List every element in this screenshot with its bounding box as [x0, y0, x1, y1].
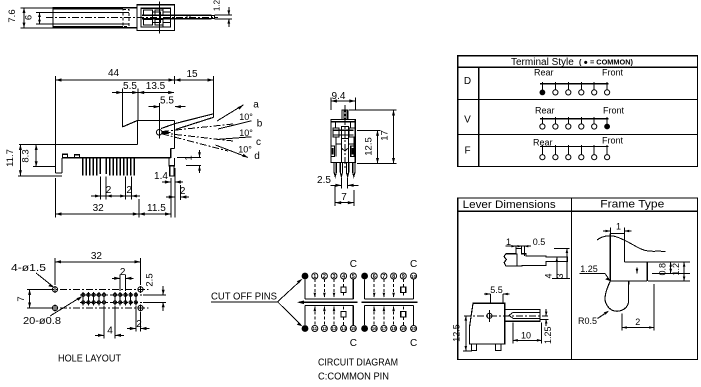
svg-text:10°: 10° [239, 112, 253, 122]
svg-text:20: 20 [411, 326, 416, 331]
svg-text:Front: Front [602, 68, 624, 78]
dim 2 2 [91, 177, 140, 200]
svg-text:17: 17 [380, 130, 391, 141]
svg-text:6: 6 [373, 274, 376, 280]
svg-text:5.5: 5.5 [160, 96, 174, 107]
svg-text:d: d [254, 151, 260, 162]
svg-text:C: C [350, 338, 357, 349]
side clips [331, 146, 354, 157]
dim 44 and 15 [56, 68, 214, 145]
svg-text:1: 1 [616, 222, 621, 232]
svg-text:V: V [464, 115, 471, 126]
svg-text:7: 7 [16, 296, 27, 301]
svg-text:7: 7 [382, 274, 385, 280]
bottom pins 16-20 [371, 326, 416, 332]
top pins 6-10 [371, 273, 416, 280]
center line [46, 17, 218, 19]
svg-text:F: F [464, 146, 470, 157]
body block [137, 5, 175, 31]
angle leaders [216, 105, 252, 158]
dim 32 and 11.5 [56, 178, 172, 218]
dim 5.5 pivot [149, 96, 186, 139]
svg-text:1.2: 1.2 [213, 0, 222, 11]
svg-text:13: 13 [332, 326, 337, 331]
small holes grid [82, 292, 138, 306]
arm top view [505, 309, 540, 321]
pins comb [82, 158, 135, 176]
svg-text:C: C [410, 338, 417, 349]
centerline arm [464, 315, 548, 317]
svg-text:7.6: 7.6 [7, 9, 18, 22]
pivot [156, 130, 170, 136]
svg-text:4-ø1.5: 4-ø1.5 [11, 262, 46, 274]
svg-text:2.5: 2.5 [317, 175, 331, 186]
frame profile [610, 233, 624, 235]
svg-text:a: a [253, 100, 259, 111]
svg-text:R0.5: R0.5 [578, 316, 597, 326]
cut pins filled [302, 273, 368, 332]
lever solid [161, 114, 214, 130]
top pins 1-5 [312, 273, 357, 280]
LOWERTABLE [452, 198, 698, 359]
svg-text:HOLE LAYOUT: HOLE LAYOUT [58, 353, 122, 365]
svg-text:11: 11 [312, 326, 317, 331]
svg-text:15: 15 [351, 326, 356, 331]
dim 9.4 [331, 91, 355, 110]
dim 32 holes [55, 251, 141, 285]
rails right half [365, 279, 414, 326]
hidden detail [123, 9, 129, 26]
dim 1.2 [213, 0, 233, 27]
dim 12.5 front [357, 130, 381, 163]
bottom pins 11-15 [312, 326, 357, 332]
pivot top view [487, 313, 492, 318]
body front [331, 119, 355, 162]
body inner [336, 137, 354, 163]
svg-text:1.4: 1.4 [154, 171, 168, 182]
svg-text:8.3: 8.3 [21, 149, 32, 162]
svg-text:2.5: 2.5 [145, 273, 156, 286]
dim 2 right holes [127, 306, 150, 332]
svg-text:3: 3 [333, 274, 336, 280]
pivot bar [333, 127, 356, 139]
TOPVIEW [7, 0, 232, 34]
row D [464, 68, 624, 96]
dim 7.6 [7, 8, 53, 28]
svg-text:b: b [257, 119, 263, 130]
dim 17 front [349, 110, 397, 164]
dim 5.5 and 13.5 [112, 81, 174, 127]
svg-text:c: c [256, 137, 261, 148]
svg-text:CUT OFF PINS: CUT OFF PINS [211, 291, 277, 303]
svg-text:10: 10 [411, 274, 416, 279]
svg-text:Rear: Rear [535, 106, 555, 116]
svg-text:19: 19 [401, 326, 406, 331]
SIDEVIEW [5, 68, 263, 218]
pins front [334, 163, 355, 177]
svg-text:15: 15 [186, 69, 198, 80]
crosshair vertical [159, 2, 161, 34]
svg-text:10°: 10° [238, 145, 252, 155]
dim 7 front [335, 186, 354, 206]
svg-text:7: 7 [341, 192, 347, 203]
svg-text:16: 16 [372, 326, 377, 331]
dim 4 [95, 306, 124, 339]
corner holes [52, 286, 143, 312]
svg-text:Front: Front [602, 136, 624, 146]
svg-text:6: 6 [24, 15, 35, 20]
table frame 2 [458, 198, 698, 359]
svg-text:1: 1 [313, 274, 316, 280]
right tab [169, 158, 175, 176]
svg-text:32: 32 [91, 251, 103, 262]
dim 1.4 [154, 171, 183, 186]
svg-text:5.5: 5.5 [490, 285, 503, 295]
lever rays [162, 124, 233, 151]
svg-text:4: 4 [107, 326, 113, 337]
center line front [344, 105, 346, 170]
dim 11.7 [5, 145, 62, 176]
svg-text:12.5: 12.5 [364, 137, 375, 156]
lever body top view [470, 303, 505, 344]
body outline [56, 145, 171, 174]
svg-text:12: 12 [322, 326, 327, 331]
svg-text:12.5: 12.5 [452, 324, 462, 342]
svg-text:8: 8 [392, 274, 395, 280]
svg-text:Lever Dimensions: Lever Dimensions [463, 199, 557, 211]
label 20-d0.8 [23, 296, 82, 327]
lever top view [452, 285, 554, 351]
svg-text:44: 44 [108, 68, 120, 79]
svg-text:1: 1 [506, 237, 511, 247]
table frame [458, 56, 698, 167]
svg-text:10°: 10° [239, 128, 253, 138]
svg-text:( ● = COMMON): ( ● = COMMON) [579, 58, 633, 67]
svg-text:D: D [464, 76, 471, 87]
svg-text:Rear: Rear [534, 68, 554, 78]
rails left half [305, 279, 353, 326]
dim 1 step [177, 150, 201, 173]
CIRCUIT [211, 259, 418, 383]
block and slant [122, 121, 174, 158]
lever side view [504, 237, 570, 279]
knob [342, 110, 348, 119]
svg-text:CIRCUIT DIAGRAM: CIRCUIT DIAGRAM [318, 357, 398, 369]
svg-text:C:COMMON PIN: C:COMMON PIN [318, 371, 389, 383]
angle labels [238, 100, 263, 163]
svg-text:2: 2 [323, 274, 326, 280]
svg-text:1: 1 [183, 155, 194, 160]
svg-text:0.5: 0.5 [533, 237, 546, 247]
row F [464, 136, 623, 160]
svg-text:1.25: 1.25 [580, 264, 598, 274]
svg-text:20-ø0.8: 20-ø0.8 [23, 315, 61, 327]
C labels [350, 259, 417, 349]
svg-text:11.5: 11.5 [147, 203, 166, 214]
svg-text:9: 9 [402, 274, 405, 280]
svg-text:13.5: 13.5 [146, 81, 166, 92]
dim 2 cols [112, 267, 134, 291]
lever outline [53, 8, 137, 28]
svg-text:10: 10 [521, 331, 531, 341]
dim 7 holes [16, 289, 50, 308]
svg-text:1.25: 1.25 [543, 326, 553, 344]
lever profile [504, 248, 568, 266]
dim 2.5 rows [143, 273, 166, 311]
dim 8.3 [21, 145, 56, 167]
table title [511, 57, 633, 68]
center lines holes [47, 289, 149, 308]
dim 2 right [166, 168, 189, 218]
label cut off pins [211, 279, 303, 327]
TERMTABLE [458, 56, 698, 167]
FRONTVIEW [317, 91, 396, 206]
table headers [463, 199, 665, 212]
svg-text:Frame Type: Frame Type [600, 199, 664, 211]
svg-text:14: 14 [341, 326, 346, 331]
svg-text:C: C [350, 259, 357, 270]
dim 6 [24, 13, 54, 25]
svg-text:32: 32 [93, 203, 105, 214]
dim 2.5 front [317, 175, 358, 189]
HOLELAYOUT [11, 251, 166, 365]
svg-text:18: 18 [391, 326, 396, 331]
svg-text:11.7: 11.7 [5, 149, 16, 167]
label 4-d1.5 [11, 262, 54, 288]
svg-text:C: C [410, 259, 417, 270]
svg-text:4: 4 [544, 273, 554, 278]
dashed contacts top [314, 279, 406, 298]
dashed contacts bottom [314, 306, 406, 325]
svg-text:5.5: 5.5 [123, 81, 137, 92]
row V [464, 106, 624, 130]
svg-text:Front: Front [603, 106, 625, 116]
svg-text:4: 4 [342, 274, 345, 280]
frame type drawing [578, 222, 690, 331]
svg-text:17: 17 [381, 326, 386, 331]
rod [142, 15, 215, 19]
svg-text:2: 2 [635, 317, 640, 327]
svg-text:Terminal Style: Terminal Style [511, 57, 574, 68]
slider bars [297, 301, 418, 305]
